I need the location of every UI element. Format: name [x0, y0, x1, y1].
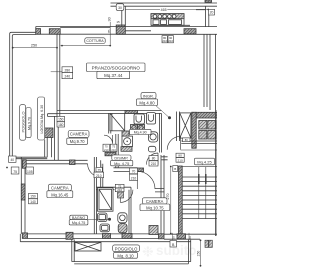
- wall pier stair bottom: [177, 234, 186, 239]
- svg-text:15: 15: [116, 20, 120, 24]
- kitchen box 3: [169, 20, 182, 25]
- door label disimp R: [130, 168, 138, 174]
- stair rail posts: [199, 174, 206, 184]
- svg-text:80: 80: [152, 157, 156, 161]
- bathtub bagno2: [98, 188, 114, 211]
- loggia label stem: [44, 140, 46, 157]
- window tick pranzo wall: [51, 71, 64, 73]
- svg-text:210: 210: [151, 162, 157, 166]
- wall pier camera dx bottom: [159, 234, 165, 239]
- vanity hatch band: [122, 131, 129, 137]
- door label loggia: [57, 116, 65, 121]
- svg-text:Mq.37.44: Mq.37.44: [104, 73, 123, 78]
- door arc ingresso-disimp: [146, 153, 158, 165]
- label box 465 backing: [160, 8, 167, 12]
- door arc camera sx: [88, 164, 101, 177]
- circle box 2: [138, 125, 145, 131]
- leader line ingr: [156, 106, 170, 118]
- camera sx left wall: [54, 116, 58, 160]
- label box Mq 4.80: [137, 99, 158, 106]
- stair stringers: [199, 167, 206, 219]
- label box BAGNO: [70, 215, 88, 220]
- svg-text:270: 270: [166, 194, 170, 200]
- disimp bottom wall: [114, 168, 138, 172]
- svg-text:BAGNO: BAGNO: [72, 216, 85, 220]
- balcony bottom edge: [10, 157, 48, 159]
- svg-text:180: 180: [58, 123, 64, 127]
- hatch boxes bottom right b: [209, 240, 212, 247]
- svg-text:subito: subito: [156, 243, 197, 258]
- svg-text:80: 80: [178, 154, 182, 158]
- balcony left railing: [10, 32, 36, 157]
- hatched small boxes: [118, 192, 213, 247]
- door label pair kitchen b: [168, 36, 173, 43]
- kitchen counter front line: [151, 24, 190, 26]
- dim line 250: [13, 47, 57, 49]
- svg-text:Mq.10.75: Mq.10.75: [146, 205, 164, 210]
- camera sx bottom wall: [22, 160, 87, 164]
- camera sx right wall: [101, 160, 103, 187]
- stairs right wall: [215, 110, 217, 236]
- label box B poggiolo: [170, 241, 177, 248]
- watermark subito: [142, 243, 197, 260]
- wc bagno2: [118, 213, 127, 223]
- dim 270 stairs: [170, 167, 172, 234]
- door arc bagno2: [120, 190, 133, 203]
- left lower wall: [21, 157, 25, 234]
- leader line bagno: [88, 218, 109, 220]
- service boxes: [199, 121, 207, 130]
- svg-text:20: 20: [188, 236, 192, 240]
- svg-text:20: 20: [107, 29, 111, 33]
- top-right dark block: [205, 0, 212, 2]
- kitchen unit top hatched row: [151, 14, 184, 19]
- kitchen recess left wall: [122, 6, 126, 25]
- label box Mq.37.44: [97, 71, 130, 78]
- wall pier camera sx bottom: [70, 160, 76, 165]
- label box POGGIOLO rot: [20, 105, 26, 141]
- svg-text:210: 210: [131, 176, 137, 180]
- label box Mq 10.75: [140, 204, 170, 211]
- svg-text:210: 210: [117, 188, 122, 192]
- wall pier camera top: [125, 110, 138, 113]
- door label camera sx window b: [26, 167, 34, 174]
- kitchen unit outline: [151, 14, 184, 26]
- dim line 465: [126, 9, 209, 11]
- svg-text:20: 20: [210, 11, 214, 15]
- kitchen sink box 2: [161, 20, 167, 25]
- label box Mq 16.45: [47, 191, 73, 198]
- label box 150: [29, 193, 38, 198]
- dark wall vertical: [192, 112, 196, 148]
- svg-text:250: 250: [31, 43, 37, 47]
- svg-text:Mq.4.25: Mq.4.25: [197, 159, 212, 164]
- right exterior walls: [204, 34, 215, 110]
- label box Mq 4.25 scala: [195, 158, 215, 165]
- door arc entrance: [167, 136, 180, 149]
- stairs treads: [182, 177, 217, 218]
- stair first riser: [182, 165, 217, 167]
- bagno2 right wall: [129, 187, 131, 234]
- wall pier left lower: [21, 184, 25, 200]
- svg-text:Mq.4.80: Mq.4.80: [139, 100, 155, 105]
- pranzo left wall: [57, 34, 60, 116]
- svg-text:B: B: [174, 167, 176, 171]
- label box POGGIOLO btm: [113, 245, 140, 252]
- svg-text:INGR.: INGR.: [143, 93, 154, 98]
- svg-text:30: 30: [118, 6, 122, 10]
- svg-text:75: 75: [97, 168, 101, 172]
- loggia wall pier: [44, 128, 53, 138]
- planter crossed box: [75, 242, 101, 251]
- svg-text:105: 105: [27, 170, 33, 174]
- wall pier kitchen right: [184, 29, 196, 34]
- label box 140: [29, 199, 38, 204]
- bidet bagno2 low: [100, 224, 110, 232]
- stairwell shaft x-box: [180, 113, 191, 138]
- label box CAMERA dx: [142, 198, 167, 204]
- label box 12 entrance: [173, 166, 178, 172]
- label box 40: [9, 156, 17, 162]
- label box Mq 4.75b: [69, 220, 88, 225]
- svg-text:30: 30: [108, 17, 112, 21]
- main upper wall band: [117, 27, 218, 35]
- ingresso leader dot: [168, 116, 171, 119]
- kitchen burner 4: [168, 15, 172, 19]
- dark wall band stair top: [192, 112, 217, 118]
- svg-text:CAMERA: CAMERA: [51, 186, 69, 191]
- label box Mq 8.10: [114, 252, 138, 258]
- svg-text:Mq.9.70: Mq.9.70: [70, 139, 86, 144]
- svg-text:75: 75: [13, 170, 17, 174]
- landing lower edge: [181, 149, 217, 151]
- svg-text:Mq. 4.75: Mq. 4.75: [114, 161, 129, 166]
- svg-text:140: 140: [30, 200, 36, 204]
- door label pair kitchen a: [162, 36, 167, 43]
- wall pier bottom mid 1: [103, 234, 111, 239]
- label box Mq 4.90 bagno: [130, 129, 152, 134]
- dim tick 20 stair right: [188, 233, 190, 240]
- ingresso left wall: [159, 113, 161, 152]
- label box Mq 9.70: [67, 138, 88, 144]
- svg-text:210: 210: [111, 148, 116, 152]
- svg-text:COTTURA: COTTURA: [86, 39, 104, 43]
- svg-text:Mq. 8.10: Mq. 8.10: [117, 253, 134, 258]
- label box 20 top right: [209, 9, 215, 15]
- dim dot 40: [6, 167, 8, 169]
- svg-text:210: 210: [162, 39, 167, 43]
- label box LOGGIA rot: [38, 97, 45, 140]
- label box 30 top: [116, 4, 124, 11]
- door arc camera dx: [137, 171, 155, 189]
- top exterior wall: [111, 3, 218, 6]
- bidet bagno1: [149, 146, 156, 152]
- door label entrance box: [183, 138, 190, 142]
- wall pier bottom mid 2: [122, 234, 132, 239]
- bagno1 threshold bar: [105, 152, 116, 156]
- label box Mq.9.70 rot: [26, 108, 31, 138]
- svg-text:210: 210: [96, 174, 102, 178]
- bagno2 left wall: [94, 157, 96, 234]
- door label camera sx window a: [11, 167, 19, 174]
- hatch boxes bottom right a: [205, 240, 208, 247]
- poggiolo bottom railing: [72, 262, 191, 264]
- washbasin 2: [147, 113, 156, 124]
- kitchen recess wall pier: [116, 25, 125, 34]
- wall pier balcony bottom: [22, 160, 26, 168]
- poggiolo bottom left wall: [72, 240, 74, 262]
- label box Mq 4.75: [111, 160, 133, 165]
- svg-text:210: 210: [168, 39, 173, 43]
- svg-text:80: 80: [185, 138, 188, 142]
- hatch below washing machine: [121, 147, 132, 152]
- wall pier poggiolo left: [66, 232, 73, 239]
- bagno2 top wall: [97, 187, 132, 190]
- label box DISIMP: [112, 155, 131, 160]
- svg-text:150: 150: [58, 118, 64, 122]
- svg-text:240: 240: [64, 75, 70, 79]
- bidet hatch bagno2: [118, 224, 127, 233]
- label box 240: [62, 73, 73, 79]
- dim line b: [61, 22, 111, 46]
- circle box 1: [131, 125, 138, 131]
- label box COTTURA: [85, 38, 105, 44]
- svg-text:PRANZO/SOGGIORNO: PRANZO/SOGGIORNO: [92, 66, 141, 71]
- door label bagno1 b: [110, 144, 117, 151]
- jog wall loggia top: [48, 114, 58, 117]
- hatch box bagno2 labels: [118, 192, 124, 198]
- svg-text:❉: ❉: [142, 244, 154, 260]
- svg-text:Mq.9.70: Mq.9.70: [27, 117, 31, 130]
- svg-text:DISIMP.: DISIMP.: [114, 155, 128, 160]
- loggia wall band top line: [36, 26, 117, 28]
- svg-text:Mq.16.45: Mq.16.45: [51, 192, 69, 197]
- kitchen burner 3: [163, 15, 167, 19]
- wall pier loggia 2: [49, 29, 60, 35]
- svg-text:Mq.4.75: Mq.4.75: [72, 221, 85, 225]
- washbasin bagno2: [98, 213, 108, 222]
- washbasin 1: [134, 114, 144, 124]
- svg-text:CAMERA: CAMERA: [70, 132, 88, 137]
- stair landing line: [181, 141, 217, 144]
- svg-text:210: 210: [104, 148, 109, 152]
- svg-text:POGGIOLO: POGGIOLO: [21, 112, 26, 133]
- kitchen burner 1: [153, 15, 157, 19]
- label box INGR: [141, 92, 156, 98]
- door label camera sx: [96, 167, 102, 171]
- svg-text:210: 210: [178, 159, 183, 163]
- kitchen sink box 1: [153, 20, 159, 25]
- label box CAMERA 16: [48, 184, 71, 191]
- svg-text:40: 40: [11, 158, 15, 162]
- door label bagno2: [115, 184, 124, 188]
- loggia right wall: [47, 138, 51, 158]
- camera sx top wall: [57, 111, 161, 114]
- kitchen burner 2: [158, 15, 162, 19]
- stairwell left wall hatched: [179, 166, 183, 234]
- label box CAMERA sx: [68, 131, 89, 138]
- svg-text:70: 70: [132, 170, 136, 174]
- svg-text:465: 465: [161, 8, 167, 12]
- bagno leader dot: [108, 218, 111, 221]
- door label bagno1 a: [103, 144, 109, 151]
- wall pier loggia 1: [36, 29, 41, 35]
- camera dx right wall: [161, 155, 164, 234]
- shower box: [110, 113, 125, 130]
- bottom wall band: [20, 234, 190, 242]
- wall pier bottom left corner: [22, 233, 27, 239]
- door label entrance pair: [176, 153, 184, 157]
- svg-text:150: 150: [30, 195, 36, 199]
- label box PRANZO/SOGGIORNO: [87, 63, 146, 72]
- svg-text:Mq.4.90: Mq.4.90: [134, 131, 147, 135]
- svg-text:150: 150: [197, 251, 201, 257]
- radiator camera dx: [149, 226, 158, 235]
- svg-text:20: 20: [171, 236, 175, 240]
- dim tick 20 stair left: [172, 233, 174, 240]
- kitchen burner 5: [172, 15, 176, 19]
- ingresso right wall: [177, 112, 180, 142]
- loggia wall band bottom line: [36, 27, 117, 35]
- kitchen recess right wall: [196, 6, 209, 26]
- label box 280: [62, 67, 73, 73]
- dim 150 poggiolo: [200, 240, 202, 265]
- svg-text:LOGGIA Mq. 6.30: LOGGIA Mq. 6.30: [40, 105, 44, 134]
- bagno1 left wall: [109, 113, 111, 133]
- wall pier disimp end: [136, 168, 144, 172]
- door arc bagno1: [104, 135, 113, 144]
- svg-text:POGGIOLO: POGGIOLO: [115, 247, 138, 252]
- door label ingresso: [149, 156, 158, 161]
- loggia wall band second top line: [60, 27, 110, 29]
- poggiolo right wall: [188, 240, 190, 264]
- bagno1 inner wall: [116, 134, 118, 168]
- ingresso bottom wall stub: [161, 157, 167, 160]
- svg-text:CAMERA: CAMERA: [146, 199, 164, 204]
- washing machine: [122, 136, 133, 146]
- svg-text:280: 280: [64, 68, 70, 72]
- camera dx top wall right stub: [155, 189, 164, 192]
- wc bagno1: [149, 132, 158, 142]
- stair bottom wall: [164, 234, 217, 239]
